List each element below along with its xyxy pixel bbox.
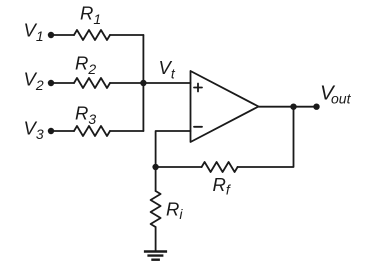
wire summing bus vertical: [142, 35, 144, 131]
wire op-amp output: [259, 106, 317, 108]
wire V2 to R2: [51, 82, 74, 84]
wire V3 to R3: [51, 130, 74, 132]
wire node Vt to op-amp + input: [143, 82, 190, 84]
op-amp - input pin mark: [194, 126, 202, 128]
node V1 input terminal: [48, 32, 54, 38]
wire R1 to bus: [110, 34, 143, 36]
resistor Ri: [151, 191, 161, 227]
wire Rf to output: [238, 107, 294, 167]
node V2 input terminal: [48, 80, 54, 86]
ground: [144, 252, 167, 260]
wire op-amp - input: [156, 131, 191, 167]
resistor R3: [74, 126, 110, 136]
resistor R1: [74, 30, 110, 40]
resistor Rf: [202, 162, 238, 172]
wire R2 to node Vt: [110, 82, 143, 84]
resistor R2: [74, 78, 110, 88]
node V3 input terminal: [48, 128, 54, 134]
wire Ri to ground: [155, 227, 157, 252]
node Vout terminal: [313, 104, 319, 110]
svg-text:out: out: [331, 90, 352, 106]
node Vt junction: [140, 80, 146, 86]
node feedback junction: [152, 164, 158, 170]
node output feedback junction: [290, 104, 296, 110]
wire V1 to R1: [51, 34, 74, 36]
op-amp + input pin mark: [194, 84, 202, 92]
wire junction to Ri: [155, 167, 157, 191]
op-amp U1: [191, 71, 259, 142]
wire junction to Rf: [156, 166, 202, 168]
wire R3 to bus: [110, 130, 143, 132]
